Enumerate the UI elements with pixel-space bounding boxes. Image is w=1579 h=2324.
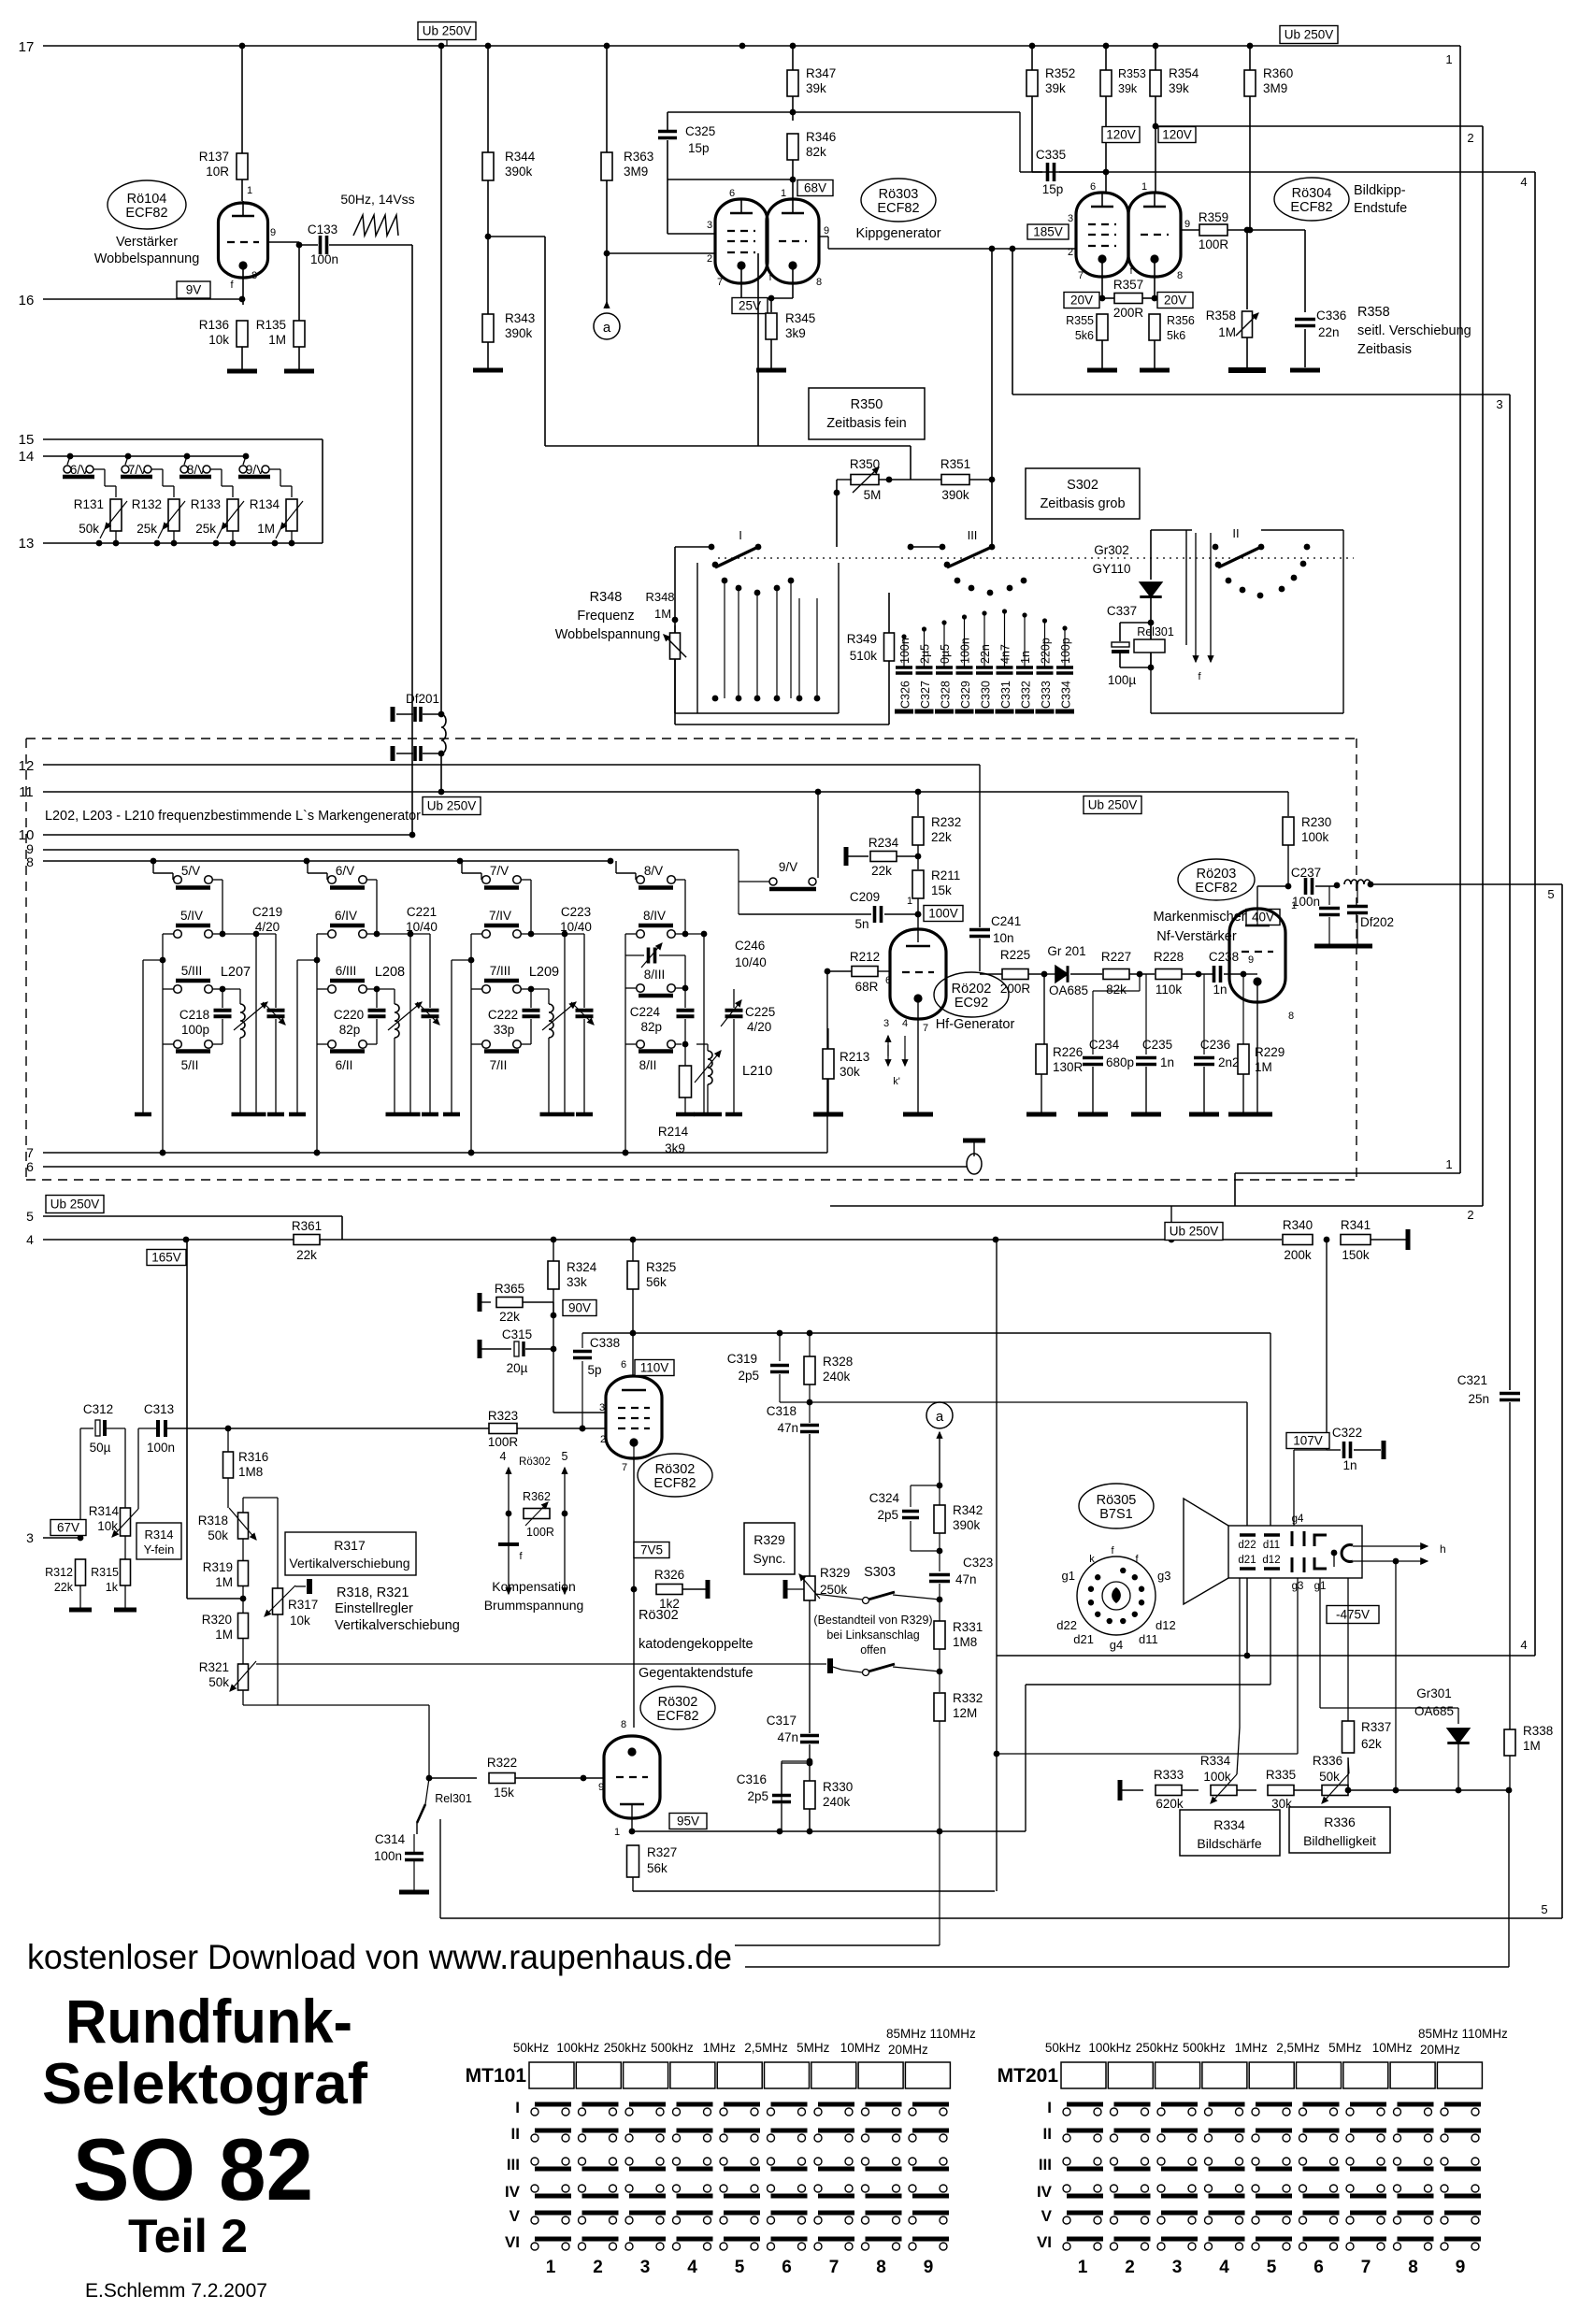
- svg-text:R348: R348: [590, 590, 623, 605]
- svg-text:Rel301: Rel301: [1137, 625, 1174, 638]
- svg-text:4: 4: [1219, 2258, 1229, 2277]
- svg-text:3: 3: [26, 1530, 34, 1545]
- 20V label right: [1157, 293, 1193, 308]
- text R358 seitl. Verschiebung Zeitbasis: [1357, 305, 1471, 357]
- resistor R323 100R: [488, 1409, 606, 1449]
- resistor R357: [1099, 278, 1158, 320]
- svg-text:R325: R325: [646, 1260, 676, 1274]
- resistor R327 56k: [627, 1845, 996, 1891]
- potentiometer R131 50k: [74, 479, 127, 546]
- left rail group 6: [297, 934, 320, 1155]
- capacitor bank C326-C334: [895, 609, 1074, 711]
- svg-text:10MHz: 10MHz: [1372, 2041, 1413, 2055]
- svg-text:C313: C313: [144, 1402, 174, 1416]
- svg-text:R360: R360: [1263, 66, 1293, 80]
- svg-text:I: I: [1047, 2099, 1052, 2116]
- svg-text:R213: R213: [840, 1050, 869, 1064]
- svg-text:5/V: 5/V: [181, 864, 200, 878]
- resistor R343: [482, 311, 535, 368]
- svg-text:C328: C328: [940, 681, 953, 709]
- svg-text:15k: 15k: [931, 883, 952, 897]
- svg-text:R345: R345: [785, 311, 815, 325]
- svg-text:R323: R323: [488, 1409, 518, 1423]
- svg-text:100p: 100p: [181, 1023, 209, 1037]
- svg-text:100k: 100k: [1203, 1770, 1231, 1784]
- svg-text:Ub 250V: Ub 250V: [50, 1198, 100, 1212]
- 120V label right: [1158, 127, 1196, 143]
- switch 7/IV: [471, 909, 584, 938]
- svg-text:510k: 510k: [850, 649, 878, 663]
- resistor R319 1M: [203, 1560, 249, 1614]
- resistor R331 1M8: [934, 1600, 983, 1671]
- capacitor C312 50µ electrolytic: [80, 1402, 125, 1538]
- svg-text:120V: 120V: [1162, 128, 1192, 142]
- wire d22 up to y1500: [810, 1402, 1247, 1526]
- svg-text:200k: 200k: [1284, 1248, 1312, 1262]
- svg-text:5/III: 5/III: [181, 964, 203, 978]
- svg-text:R317: R317: [334, 1538, 366, 1553]
- Kompensation Brummspannung subdiagram: [498, 1450, 568, 1594]
- svg-text:Gr302: Gr302: [1094, 543, 1129, 557]
- switch 5/III: [163, 964, 225, 993]
- svg-text:R340: R340: [1283, 1218, 1313, 1232]
- svg-text:Gr 201: Gr 201: [1047, 944, 1085, 958]
- svg-text:Zeitbasis fein: Zeitbasis fein: [826, 416, 906, 431]
- wire cathode down: [631, 1456, 638, 1728]
- svg-text:4/20: 4/20: [255, 920, 280, 934]
- svg-text:C329: C329: [959, 681, 972, 709]
- svg-text:C331: C331: [999, 681, 1012, 709]
- svg-text:R314: R314: [89, 1504, 120, 1518]
- svg-text:100n: 100n: [310, 252, 338, 266]
- svg-text:k': k': [893, 1076, 900, 1087]
- svg-text:C314: C314: [375, 1832, 406, 1846]
- switch 5/II: [163, 1040, 222, 1072]
- svg-text:-475V: -475V: [1336, 1608, 1370, 1622]
- 20V label left: [1064, 293, 1099, 308]
- wire y1426 rail: [582, 1330, 1270, 1337]
- svg-text:C133: C133: [308, 222, 337, 237]
- resistor R356: [1149, 314, 1195, 368]
- resistor R227 82k: [1101, 950, 1155, 997]
- svg-text:Rö302: Rö302: [658, 1695, 698, 1710]
- svg-text:185V: 185V: [1033, 225, 1063, 239]
- capacitor C218: [179, 989, 232, 1044]
- svg-text:R135: R135: [256, 318, 286, 332]
- switch I wiper: [675, 528, 761, 713]
- svg-text:5k6: 5k6: [1075, 329, 1094, 342]
- svg-text:g4: g4: [1110, 1638, 1123, 1652]
- svg-text:1M8: 1M8: [953, 1635, 977, 1649]
- svg-text:30k: 30k: [840, 1065, 860, 1079]
- R314 Y-fein label box: [136, 1523, 181, 1559]
- svg-text:100n: 100n: [898, 638, 912, 664]
- switch S303 lower contact: [830, 1658, 942, 1676]
- svg-text:2,5MHz: 2,5MHz: [1276, 2041, 1320, 2055]
- wire R322 row: [426, 1775, 477, 1782]
- svg-text:R226: R226: [1053, 1045, 1083, 1059]
- svg-text:R230: R230: [1301, 815, 1331, 829]
- svg-text:6: 6: [621, 1359, 626, 1370]
- svg-text:3: 3: [1068, 213, 1073, 224]
- svg-text:R350: R350: [851, 397, 883, 412]
- svg-text:R361: R361: [292, 1219, 322, 1233]
- svg-text:GY110: GY110: [1092, 562, 1130, 576]
- wire R321 bottom to R322 node: [278, 1705, 429, 1778]
- trimmer C219: [252, 905, 285, 1112]
- svg-text:7/II: 7/II: [490, 1058, 508, 1072]
- svg-text:Rö303: Rö303: [879, 187, 919, 202]
- svg-text:C237: C237: [1291, 866, 1321, 880]
- svg-text:100R: 100R: [526, 1526, 554, 1539]
- svg-text:6/IV: 6/IV: [335, 909, 357, 923]
- ground C235: [1131, 1112, 1161, 1117]
- capacitor C235 1n: [1136, 974, 1174, 1112]
- matrix MT101 row V: [510, 2207, 949, 2225]
- matrix MT201 column numbers: [1078, 2258, 1466, 2277]
- svg-text:3k9: 3k9: [665, 1141, 685, 1155]
- svg-text:2p5: 2p5: [738, 1369, 759, 1383]
- matrix MT201 row VI: [1037, 2233, 1481, 2251]
- resistor R354: [1150, 46, 1199, 194]
- S302 Zeitbasis grob label box: [1026, 468, 1140, 519]
- connector matrix MT201 header: [1045, 2027, 1508, 2057]
- svg-text:Einstellregler: Einstellregler: [335, 1601, 413, 1616]
- svg-text:8: 8: [876, 2258, 886, 2277]
- 9V voltage label: [177, 281, 210, 298]
- svg-text:C327: C327: [919, 681, 932, 709]
- svg-text:g4: g4: [1292, 1513, 1304, 1525]
- svg-text:20V: 20V: [1164, 294, 1186, 308]
- svg-text:S303: S303: [864, 1565, 896, 1580]
- svg-text:8: 8: [26, 854, 34, 869]
- svg-text:bei Linksanschlag: bei Linksanschlag: [826, 1628, 919, 1642]
- svg-text:R337: R337: [1361, 1720, 1391, 1734]
- Ub 250V label lower left: [46, 1196, 104, 1213]
- tube Rö202 EC92 triode: [883, 929, 946, 1112]
- wire R321 wiper to S303: [256, 1663, 826, 1665]
- capacitor C325: [658, 112, 716, 234]
- trimmer C225 4/20: [721, 989, 775, 1112]
- svg-text:500kHz: 500kHz: [651, 2041, 694, 2055]
- 68V voltage label: [797, 180, 833, 196]
- resistor R344: [482, 46, 536, 314]
- svg-text:1k: 1k: [106, 1581, 119, 1594]
- resistor R335 30k: [1266, 1768, 1322, 1811]
- svg-text:R355: R355: [1066, 314, 1094, 327]
- svg-text:22k: 22k: [871, 864, 892, 878]
- svg-text:1: 1: [1141, 181, 1147, 193]
- svg-text:9: 9: [598, 1782, 604, 1793]
- svg-text:13: 13: [19, 536, 35, 552]
- resistor R229 1M: [1238, 974, 1285, 1112]
- switch 8/IV: [625, 909, 707, 938]
- switch II contact arc: [1226, 544, 1311, 599]
- switch 6/IV: [317, 909, 430, 938]
- svg-text:C218: C218: [179, 1008, 209, 1022]
- svg-text:25k: 25k: [136, 522, 157, 536]
- resistor R326 1k2: [654, 1568, 708, 1611]
- switch 6/V: [63, 453, 116, 479]
- svg-text:Rö302: Rö302: [639, 1608, 679, 1623]
- svg-text:R322: R322: [487, 1756, 517, 1770]
- resistor R316 1M8: [223, 1428, 269, 1508]
- svg-text:7: 7: [923, 1023, 928, 1034]
- svg-text:8: 8: [621, 1719, 626, 1730]
- svg-text:R324: R324: [567, 1260, 597, 1274]
- switch Rel301 lower: [417, 1778, 472, 1918]
- 95V label: [669, 1814, 707, 1829]
- svg-text:5: 5: [1547, 887, 1554, 901]
- ground R136: [227, 369, 257, 374]
- text R318 R321 Einstellregler: [335, 1585, 460, 1633]
- svg-text:56k: 56k: [647, 1861, 667, 1875]
- svg-text:Ub 250V: Ub 250V: [423, 24, 472, 38]
- svg-text:12M: 12M: [953, 1706, 977, 1720]
- svg-text:f: f: [769, 273, 772, 283]
- svg-text:8/IV: 8/IV: [643, 909, 666, 923]
- switch 5/V: [153, 861, 222, 934]
- svg-text:82k: 82k: [806, 145, 826, 159]
- svg-text:200R: 200R: [1000, 982, 1031, 996]
- svg-text:Rö104: Rö104: [127, 192, 167, 207]
- svg-text:R341: R341: [1341, 1218, 1371, 1232]
- svg-text:R354: R354: [1169, 66, 1199, 80]
- capacitor C234 680p: [1083, 974, 1140, 1112]
- bus line 11: [19, 784, 1288, 800]
- sawtooth symbol 50Hz 14Vss: [340, 192, 414, 236]
- svg-text:68R: 68R: [855, 980, 879, 994]
- switch 6/III: [317, 964, 380, 993]
- svg-text:9: 9: [1456, 2258, 1466, 2277]
- svg-text:22k: 22k: [499, 1310, 520, 1324]
- long wire bus5 bottom: [440, 1902, 1562, 1918]
- switch 6/II: [317, 1040, 377, 1072]
- tube Rö302 upper half: [599, 1333, 662, 1473]
- bus line 6: [26, 1159, 968, 1174]
- terminal R317 wiper: [295, 1579, 309, 1594]
- CRT neck box: [1228, 1526, 1362, 1578]
- svg-text:240k: 240k: [823, 1370, 851, 1384]
- svg-text:(Bestandteil von R329): (Bestandteil von R329): [813, 1614, 932, 1627]
- capacitor C220: [334, 989, 386, 1044]
- svg-text:Wobbelspannung: Wobbelspannung: [94, 251, 200, 266]
- tube Rö104 triode: [219, 185, 277, 305]
- svg-text:1M: 1M: [1523, 1739, 1541, 1753]
- Ub 250V label CRT area: [1165, 1223, 1223, 1241]
- svg-text:11: 11: [19, 784, 34, 800]
- svg-text:C318: C318: [767, 1404, 797, 1418]
- svg-text:R349: R349: [847, 632, 877, 646]
- connector matrix MT101 header: [513, 2027, 976, 2057]
- svg-text:15p: 15p: [688, 141, 710, 155]
- matrix MT101 row I: [515, 2099, 949, 2116]
- svg-text:2n2: 2n2: [1218, 1055, 1240, 1069]
- bus line 8: [26, 854, 613, 869]
- svg-text:ECF82: ECF82: [1195, 881, 1237, 896]
- svg-text:Bildhelligkeit: Bildhelligkeit: [1303, 1833, 1376, 1848]
- svg-text:50k: 50k: [208, 1528, 228, 1542]
- svg-text:39k: 39k: [1169, 81, 1189, 95]
- connector matrix MT101 boxes: [466, 2062, 951, 2088]
- resistor R328 240k: [804, 1333, 853, 1402]
- svg-text:R317: R317: [288, 1598, 318, 1612]
- svg-text:39k: 39k: [1118, 82, 1138, 95]
- svg-text:C323: C323: [963, 1556, 993, 1570]
- 110V label: [635, 1360, 674, 1376]
- svg-text:R335: R335: [1266, 1768, 1296, 1782]
- svg-text:9: 9: [1184, 219, 1190, 230]
- 25V voltage label: [732, 298, 768, 314]
- capacitor C222: [488, 989, 540, 1044]
- resistor R135: [256, 245, 305, 369]
- tube label Rö302 ECF82 upper: [638, 1454, 712, 1497]
- matrix MT201 row II: [1043, 2125, 1481, 2143]
- left rail group 8: [623, 955, 629, 1155]
- svg-text:R351: R351: [940, 457, 970, 471]
- svg-text:Gegentaktendstufe: Gegentaktendstufe: [639, 1666, 754, 1681]
- capacitor C318 47n: [767, 1402, 819, 1577]
- svg-text:9: 9: [924, 2258, 934, 2277]
- capacitor C322 1n: [1327, 1426, 1384, 1472]
- svg-text:10k: 10k: [290, 1614, 310, 1628]
- grounds group 6: [289, 1112, 438, 1117]
- svg-text:R327: R327: [647, 1845, 677, 1859]
- svg-text:10k: 10k: [208, 333, 229, 347]
- switch 7/V: [121, 453, 174, 479]
- svg-text:IV: IV: [505, 2183, 521, 2201]
- svg-text:15: 15: [19, 432, 35, 448]
- svg-text:R344: R344: [505, 150, 536, 164]
- ground C234: [1078, 1112, 1108, 1117]
- ground Rö203 cathode: [1242, 1112, 1272, 1117]
- capacitor C224 82p: [630, 988, 695, 1047]
- connector matrix MT201 boxes: [998, 2062, 1483, 2088]
- svg-text:8: 8: [251, 270, 257, 281]
- svg-text:C234: C234: [1089, 1038, 1120, 1052]
- svg-text:R214: R214: [658, 1125, 689, 1139]
- CRT socket diagram: [1056, 1545, 1175, 1652]
- capacitor C236 2n2: [1194, 974, 1240, 1112]
- svg-text:6: 6: [885, 975, 891, 986]
- svg-text:2p5: 2p5: [747, 1789, 768, 1803]
- svg-text:10/40: 10/40: [560, 920, 592, 934]
- svg-text:4: 4: [1520, 1638, 1527, 1652]
- bus 4 right vertical: [1020, 172, 1535, 1656]
- resistor R352: [1026, 46, 1075, 172]
- potentiometer R358: [1206, 230, 1258, 367]
- trimmer C246 10/40: [704, 934, 767, 1112]
- svg-text:62k: 62k: [1361, 1737, 1382, 1751]
- coil L209: [529, 934, 576, 1112]
- potentiometer R329 250k: [785, 1566, 850, 1733]
- capacitor C313 100n: [138, 1402, 490, 1509]
- svg-text:6: 6: [26, 1159, 34, 1174]
- R334 Bildschärfe label box: [1180, 1810, 1280, 1856]
- svg-text:1M: 1M: [268, 333, 286, 347]
- wire g1 down to diode: [1320, 1578, 1458, 1724]
- svg-text:15p: 15p: [1042, 182, 1064, 196]
- svg-text:C336: C336: [1316, 308, 1346, 323]
- svg-text:R329: R329: [820, 1566, 850, 1580]
- svg-text:Sync.: Sync.: [753, 1551, 785, 1566]
- resistor R361 22k: [292, 1219, 322, 1262]
- svg-text:3: 3: [599, 1402, 605, 1413]
- svg-text:R342: R342: [953, 1503, 983, 1517]
- svg-text:9: 9: [270, 227, 276, 238]
- svg-text:d21: d21: [1238, 1555, 1256, 1566]
- svg-text:C335: C335: [1036, 148, 1066, 162]
- ground R135: [284, 369, 314, 374]
- svg-text:C338: C338: [590, 1336, 620, 1350]
- svg-text:SO 82: SO 82: [73, 2120, 313, 2218]
- ground R355: [1087, 368, 1117, 373]
- svg-text:12: 12: [19, 758, 35, 774]
- focus chain wire: [1120, 1780, 1399, 1800]
- svg-text:1M: 1M: [257, 522, 275, 536]
- svg-text:MT101: MT101: [466, 2065, 527, 2087]
- svg-text:120V: 120V: [1106, 128, 1136, 142]
- resistor R225 200R: [980, 948, 1047, 996]
- svg-text:Nf-Verstärker: Nf-Verstärker: [1156, 929, 1237, 944]
- svg-text:85MHz 110MHz: 85MHz 110MHz: [886, 2027, 976, 2041]
- tube label Rö202 EC92: [934, 972, 1009, 1017]
- svg-text:R363: R363: [624, 150, 653, 164]
- svg-text:7/III: 7/III: [490, 964, 511, 978]
- resistor R349 510k: [847, 593, 895, 724]
- svg-text:d11: d11: [1263, 1540, 1280, 1551]
- svg-text:3: 3: [1172, 2258, 1183, 2277]
- svg-text:d11: d11: [1139, 1632, 1158, 1646]
- svg-text:100n: 100n: [147, 1441, 175, 1455]
- svg-text:4: 4: [902, 1018, 908, 1029]
- capacitor C314 100n: [374, 1832, 423, 1890]
- svg-text:Rö304: Rö304: [1292, 186, 1332, 201]
- svg-text:C224: C224: [630, 1005, 661, 1019]
- switch III wiper: [908, 528, 996, 567]
- svg-text:5/IV: 5/IV: [180, 909, 203, 923]
- resistor R324 33k: [548, 1240, 597, 1413]
- diode Gr301 OA685: [1414, 1686, 1470, 1793]
- svg-text:16: 16: [19, 293, 35, 308]
- svg-text:67V: 67V: [57, 1521, 79, 1535]
- capacitor C316 2p5: [737, 1760, 813, 1831]
- svg-text:C316: C316: [737, 1772, 767, 1786]
- svg-text:2,5MHz: 2,5MHz: [744, 2041, 788, 2055]
- capacitor C336: [1295, 230, 1346, 367]
- svg-text:Selektograf: Selektograf: [42, 2052, 367, 2116]
- svg-text:6/III: 6/III: [336, 964, 357, 978]
- svg-text:1: 1: [247, 185, 252, 196]
- svg-text:4: 4: [26, 1232, 34, 1247]
- svg-text:500kHz: 500kHz: [1183, 2041, 1226, 2055]
- svg-text:R314: R314: [144, 1528, 173, 1542]
- svg-text:390k: 390k: [505, 165, 533, 179]
- svg-text:Ub 250V: Ub 250V: [1088, 798, 1138, 812]
- svg-text:R234: R234: [868, 836, 899, 850]
- Ub 250V label right: [1280, 26, 1338, 44]
- svg-text:82p: 82p: [640, 1020, 662, 1034]
- svg-text:R232: R232: [931, 815, 961, 829]
- tube Rö203 triode: [1229, 886, 1297, 1112]
- wire C325 top to R347 node: [667, 109, 1020, 172]
- switch 9/V: [238, 453, 292, 479]
- resistor R213 30k: [823, 1028, 869, 1112]
- svg-text:5n: 5n: [854, 917, 868, 931]
- svg-text:3M9: 3M9: [624, 165, 648, 179]
- svg-text:Rundfunk-: Rundfunk-: [65, 1987, 352, 2056]
- svg-text:R136: R136: [199, 318, 229, 332]
